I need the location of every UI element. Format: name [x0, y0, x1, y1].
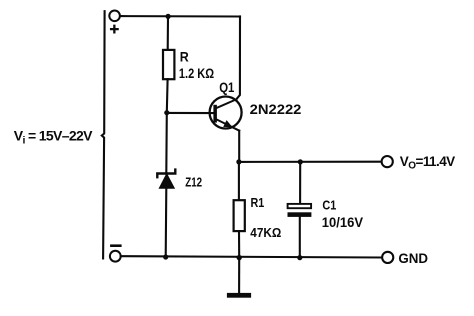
resistor R1 — [234, 200, 245, 231]
wire (zener top lead) — [165, 113, 168, 174]
node (junction, emitter/output) — [236, 159, 241, 164]
svg-text:Vi = 15V–22V: Vi = 15V–22V — [14, 127, 93, 146]
label C1 — [322, 198, 336, 213]
terminal GND — [382, 252, 393, 263]
wire (R top lead) — [167, 17, 169, 51]
label 1.2 KΩ — [179, 65, 214, 81]
wire (emitter lead down to output rail) — [238, 131, 240, 162]
node (junction, zener bottom) — [163, 254, 168, 259]
svg-text:2N2222: 2N2222 — [250, 101, 302, 117]
node (junction, C1 bottom) — [297, 255, 302, 260]
wire (bottom rail) — [121, 256, 382, 257]
- polarity mark — [111, 244, 120, 247]
zener diode Z12 — [157, 170, 175, 189]
svg-text:R1: R1 — [251, 196, 265, 210]
svg-text:Z12: Z12 — [185, 174, 202, 189]
terminal - (input negative) — [110, 251, 121, 262]
wire (R1 top lead) — [238, 162, 240, 201]
label Z12 — [185, 174, 202, 189]
svg-text:R: R — [180, 48, 189, 64]
wire (R bottom lead to base node) — [166, 79, 169, 113]
label 47KΩ — [250, 226, 281, 240]
label R — [180, 48, 189, 64]
node (junction, C1 top) — [298, 159, 303, 164]
wire (zener bottom lead) — [165, 188, 168, 257]
svg-text:1.2 KΩ: 1.2 KΩ — [179, 65, 214, 81]
capacitor C1 — [288, 204, 312, 217]
label R1 — [251, 196, 265, 210]
ground — [227, 258, 251, 298]
wire (output rail) — [239, 161, 382, 163]
wire (top rail) — [120, 15, 240, 17]
label 2N2222 — [250, 101, 302, 117]
label Vo = 11.4V — [400, 154, 455, 172]
wire (left input bracket line) — [102, 11, 105, 258]
label Vi = 15V-22V — [14, 127, 93, 146]
resistor R — [163, 50, 174, 79]
label 10/16V — [322, 214, 364, 230]
node (junction, top of R) — [166, 14, 171, 19]
terminal + (input positive) — [109, 11, 120, 22]
node (junction, base tap) — [164, 110, 169, 115]
svg-text:47KΩ: 47KΩ — [250, 226, 281, 240]
wire (R1 bottom lead) — [238, 231, 240, 258]
+ polarity mark — [111, 26, 118, 33]
label Q1 — [219, 79, 234, 95]
svg-text:Q1: Q1 — [219, 79, 234, 95]
wire (base wire to Q1) — [167, 112, 214, 114]
svg-text:10/16V: 10/16V — [322, 214, 364, 230]
transistor Q1 — [210, 97, 242, 131]
wire (collector lead up to top rail) — [236, 16, 240, 99]
terminal Vo — [382, 156, 393, 167]
label GND — [398, 250, 428, 266]
svg-text:VO=11.4V: VO=11.4V — [400, 154, 455, 172]
node (junction, ground stem) — [237, 255, 242, 260]
wire (C1 top lead) — [299, 162, 301, 204]
svg-text:C1: C1 — [322, 198, 336, 213]
svg-text:GND: GND — [398, 250, 428, 266]
wire (C1 bottom lead) — [299, 217, 301, 258]
